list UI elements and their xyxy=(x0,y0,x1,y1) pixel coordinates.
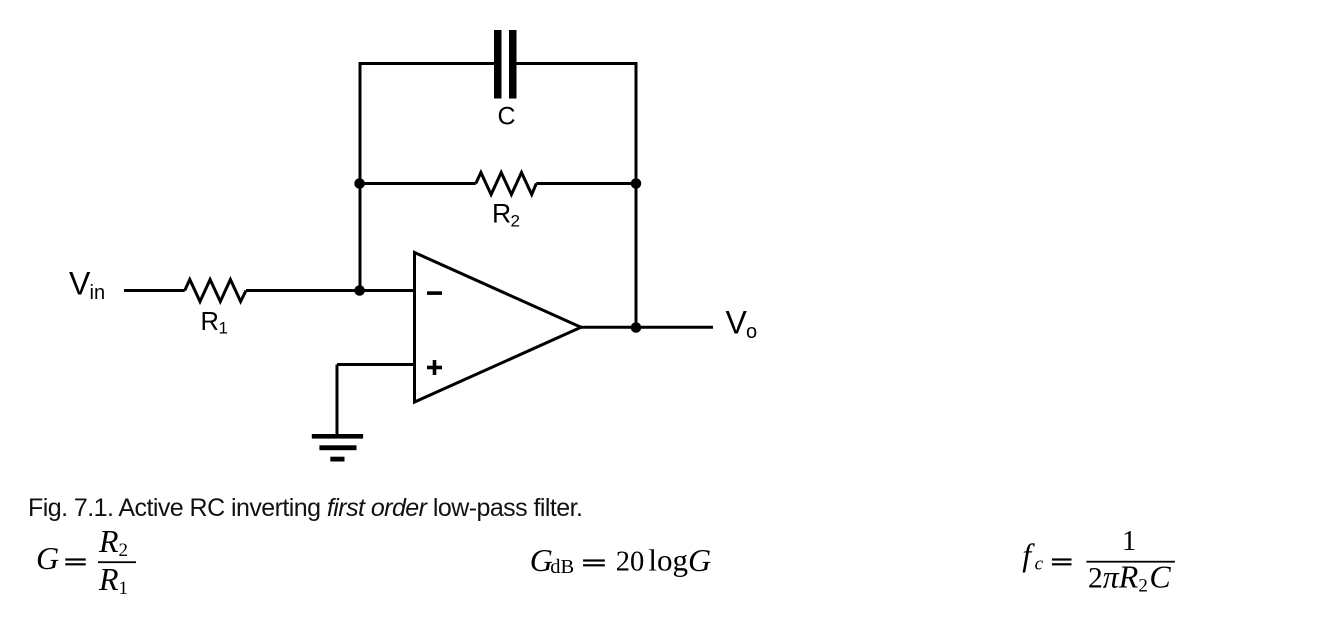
svg-text:dB: dB xyxy=(550,556,574,578)
svg-text:log: log xyxy=(648,543,688,578)
svg-text:2πR2C: 2πR2C xyxy=(1088,559,1171,597)
svg-text:V: V xyxy=(69,266,91,302)
svg-text:R2: R2 xyxy=(98,523,128,561)
svg-text:c: c xyxy=(1035,554,1044,575)
svg-text:G: G xyxy=(36,540,59,576)
svg-text:R: R xyxy=(492,198,511,228)
svg-text:2: 2 xyxy=(511,212,520,231)
svg-text:R1: R1 xyxy=(98,561,128,599)
svg-text:f: f xyxy=(1022,537,1035,573)
svg-text:G: G xyxy=(688,542,711,578)
svg-text:C: C xyxy=(497,102,515,130)
svg-text:V: V xyxy=(726,305,748,341)
svg-text:1: 1 xyxy=(219,318,228,337)
svg-text:1: 1 xyxy=(1122,526,1136,557)
svg-text:o: o xyxy=(746,321,757,343)
svg-text:in: in xyxy=(90,282,106,304)
svg-text:20: 20 xyxy=(616,546,645,577)
svg-text:R: R xyxy=(201,308,219,336)
